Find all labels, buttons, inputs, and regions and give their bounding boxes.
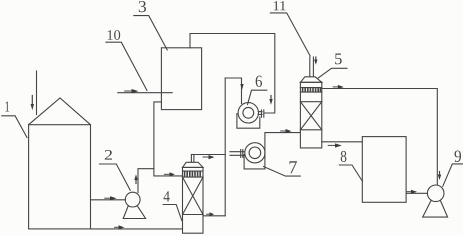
- feed pipe into tank 1: [36, 71, 38, 115]
- flow arrow on column5 outlet: [333, 85, 344, 89]
- pipe column4 top to riser: [191, 154, 225, 156]
- fan 7: [244, 143, 265, 169]
- pump 6 suction stub from riser: [225, 78, 241, 104]
- arrow down into pump 9: [438, 172, 441, 181]
- column 4 demister band: [183, 171, 204, 177]
- pipe column5 to pump 9: [322, 89, 438, 186]
- flow arrow on tank1-pump2 pipe: [105, 196, 117, 200]
- flow arrow on bottom pipe: [115, 225, 125, 229]
- pipe tank3 top to pump6: [190, 34, 275, 114]
- column 4 body: [183, 162, 204, 233]
- tank 3 box: [161, 48, 201, 110]
- column 5 vent stub: [310, 57, 314, 77]
- flow arrow below column4 top pipe: [203, 155, 215, 159]
- label 1: [2, 102, 27, 138]
- pipe tank8 to pump9: [406, 192, 427, 194]
- label 7: [264, 161, 301, 176]
- feed pipe 10 into tank 3: [118, 92, 172, 94]
- label 10: [106, 30, 147, 90]
- label 11: [270, 1, 310, 56]
- flow arrow on column4 spray branch: [164, 172, 175, 176]
- pump 9: [423, 185, 448, 217]
- pump 6 outlet flange: [258, 110, 264, 117]
- label 3: [134, 1, 167, 50]
- label 2: [99, 150, 130, 190]
- column 5 demister band: [300, 88, 321, 93]
- tank 1 silo body: [29, 98, 91, 229]
- column 4 packing X section: [183, 177, 204, 214]
- pump 6 fan housing: [237, 103, 260, 129]
- label 5: [318, 54, 348, 79]
- label 6: [248, 76, 267, 105]
- pipe tank1 bottom to column4 sump: [91, 228, 183, 230]
- column 4 vent stub: [191, 155, 194, 163]
- tank 8 box: [362, 137, 406, 203]
- flow arrow on tank8 outlet: [407, 190, 418, 194]
- fan 7 inlet duct: [230, 150, 245, 158]
- pump 2 discharge pipe riser to tank 3: [138, 102, 161, 193]
- pump 2: [123, 192, 145, 218]
- column 5 body: [300, 77, 321, 148]
- arrow down on pump6 downcomer: [269, 96, 272, 105]
- exhaust arrow at column 5 vent: [314, 57, 317, 65]
- flow arrow on pipe 10: [125, 89, 139, 93]
- flow arrow on column4 side outlet: [207, 212, 214, 216]
- branch pipe from pump2 riser into column 4 spray inlet: [154, 169, 183, 176]
- label 9: [443, 151, 463, 187]
- pipe column5 bottom to tank 8: [322, 141, 363, 143]
- flow arrow below column5 bottom pipe: [328, 143, 342, 147]
- feed arrow down: [31, 96, 34, 111]
- pipe column4 side outlet to riser: [203, 215, 225, 217]
- pipe tank1 to pump2: [91, 199, 126, 201]
- label 8: [339, 151, 362, 182]
- riser pipe from column 4: [224, 78, 226, 216]
- label 4: [163, 191, 182, 220]
- arrow up on pump2 riser: [134, 174, 137, 183]
- column 5 packing X section: [300, 102, 321, 130]
- fan 7 outlet pipe to column 5: [265, 133, 301, 158]
- arrow down on pump6 suction: [240, 84, 243, 90]
- flow arrow on fan outlet: [281, 129, 292, 133]
